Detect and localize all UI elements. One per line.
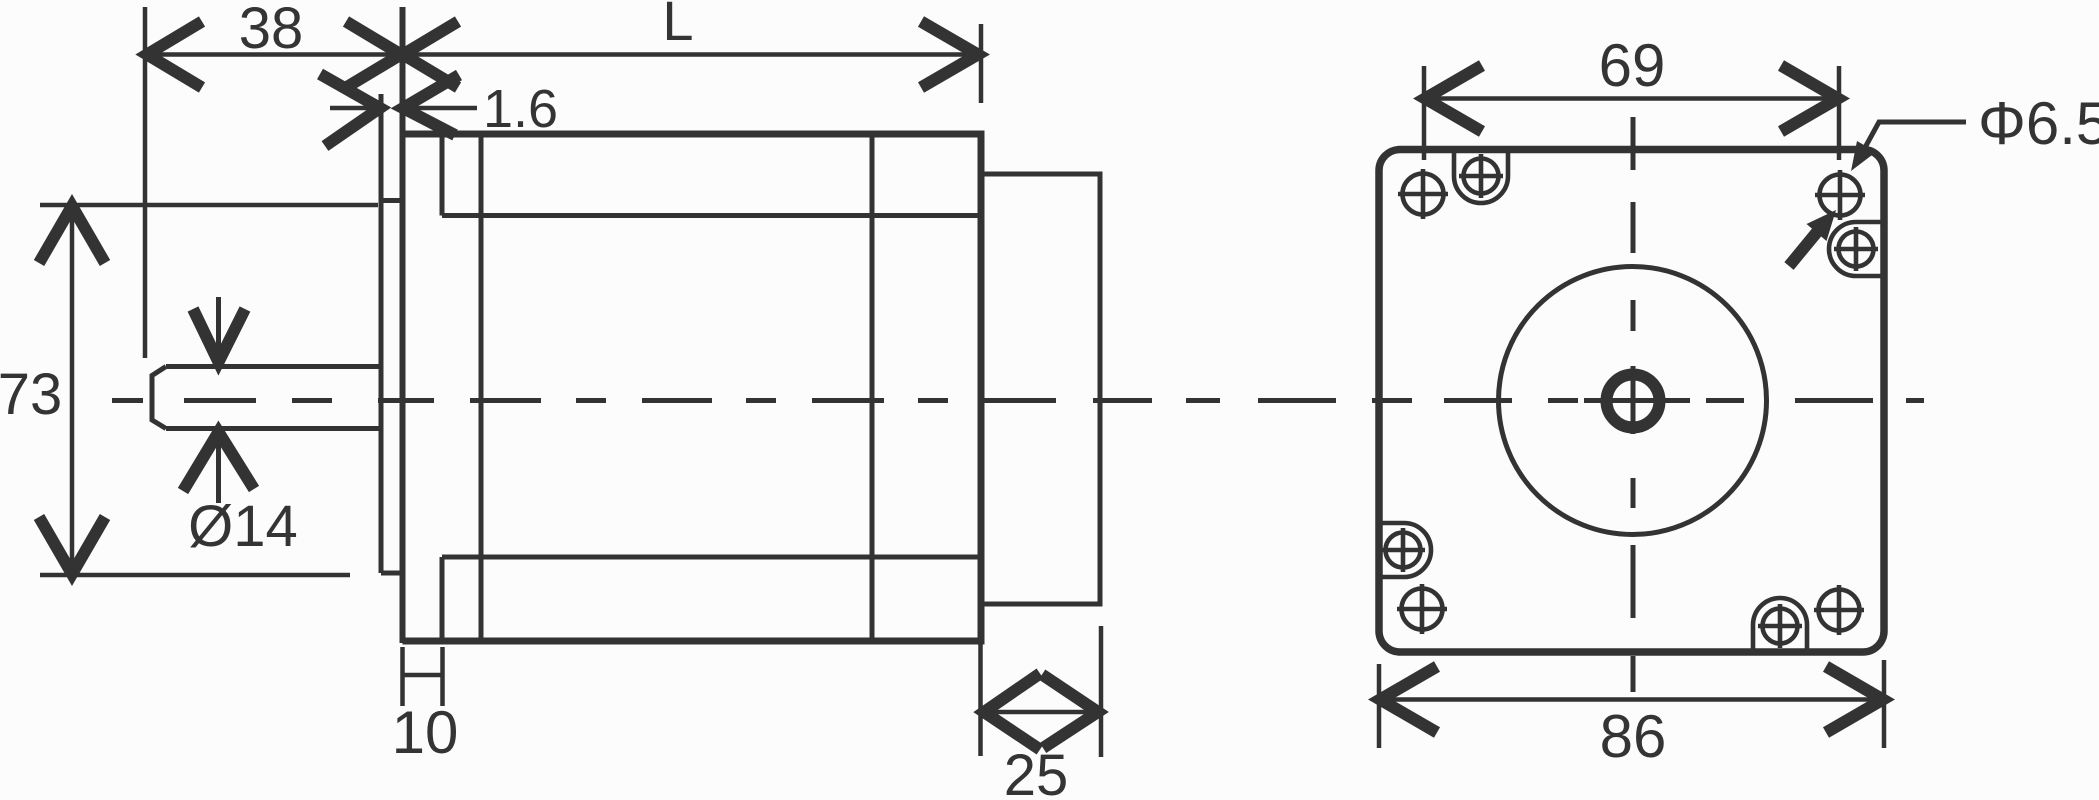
svg-text:25: 25 [1004,743,1069,800]
screw washer top-left [1454,150,1508,203]
shaft hub ring [1607,375,1660,428]
svg-text:73: 73 [0,362,62,427]
svg-text:10: 10 [392,699,459,766]
svg-text:69: 69 [1599,32,1666,99]
dimension 73 [40,205,378,575]
screw washer top-right [1829,222,1884,276]
pilot circle front [1499,267,1767,535]
dimension 25 [981,626,1102,757]
rear endcap line [870,134,875,641]
pilot boss [381,94,403,573]
svg-text:1.6: 1.6 [483,79,558,139]
flange front face [400,7,406,643]
dimension dia 14 [216,297,221,503]
rear housing [981,174,1100,604]
screw hole top-left [1398,169,1448,219]
svg-text:38: 38 [239,0,304,61]
front endcap line [479,134,484,641]
screw hole bottom-right [1814,585,1864,635]
dimension 86 [1379,660,1884,748]
centerline main horizontal axis [112,398,1924,403]
label dia 6.5 leader [1862,122,1966,153]
svg-text:86: 86 [1600,703,1667,770]
dimension 38 [145,7,402,358]
screw washer bottom-right [1753,598,1807,651]
dimension L [403,24,981,103]
screw washer bottom-left [1380,523,1431,577]
front view flange square [1379,150,1884,653]
vertical centerline front view [1631,117,1636,692]
motor body outline [403,134,982,641]
svg-text:L: L [662,0,693,52]
dimension 1.6 [330,106,477,111]
dimension 69 [1424,66,1839,160]
flange rear face segments [440,134,445,641]
svg-text:Φ6.5: Φ6.5 [1978,90,2099,157]
stator chamfer lines [442,216,981,558]
svg-text:Ø14: Ø14 [188,494,298,559]
dimension 10 [403,647,443,706]
shaft [152,367,380,429]
pointer arrow to hole [1789,232,1817,266]
screw hole top-right [1815,170,1865,220]
screw hole bottom-left [1397,584,1447,634]
